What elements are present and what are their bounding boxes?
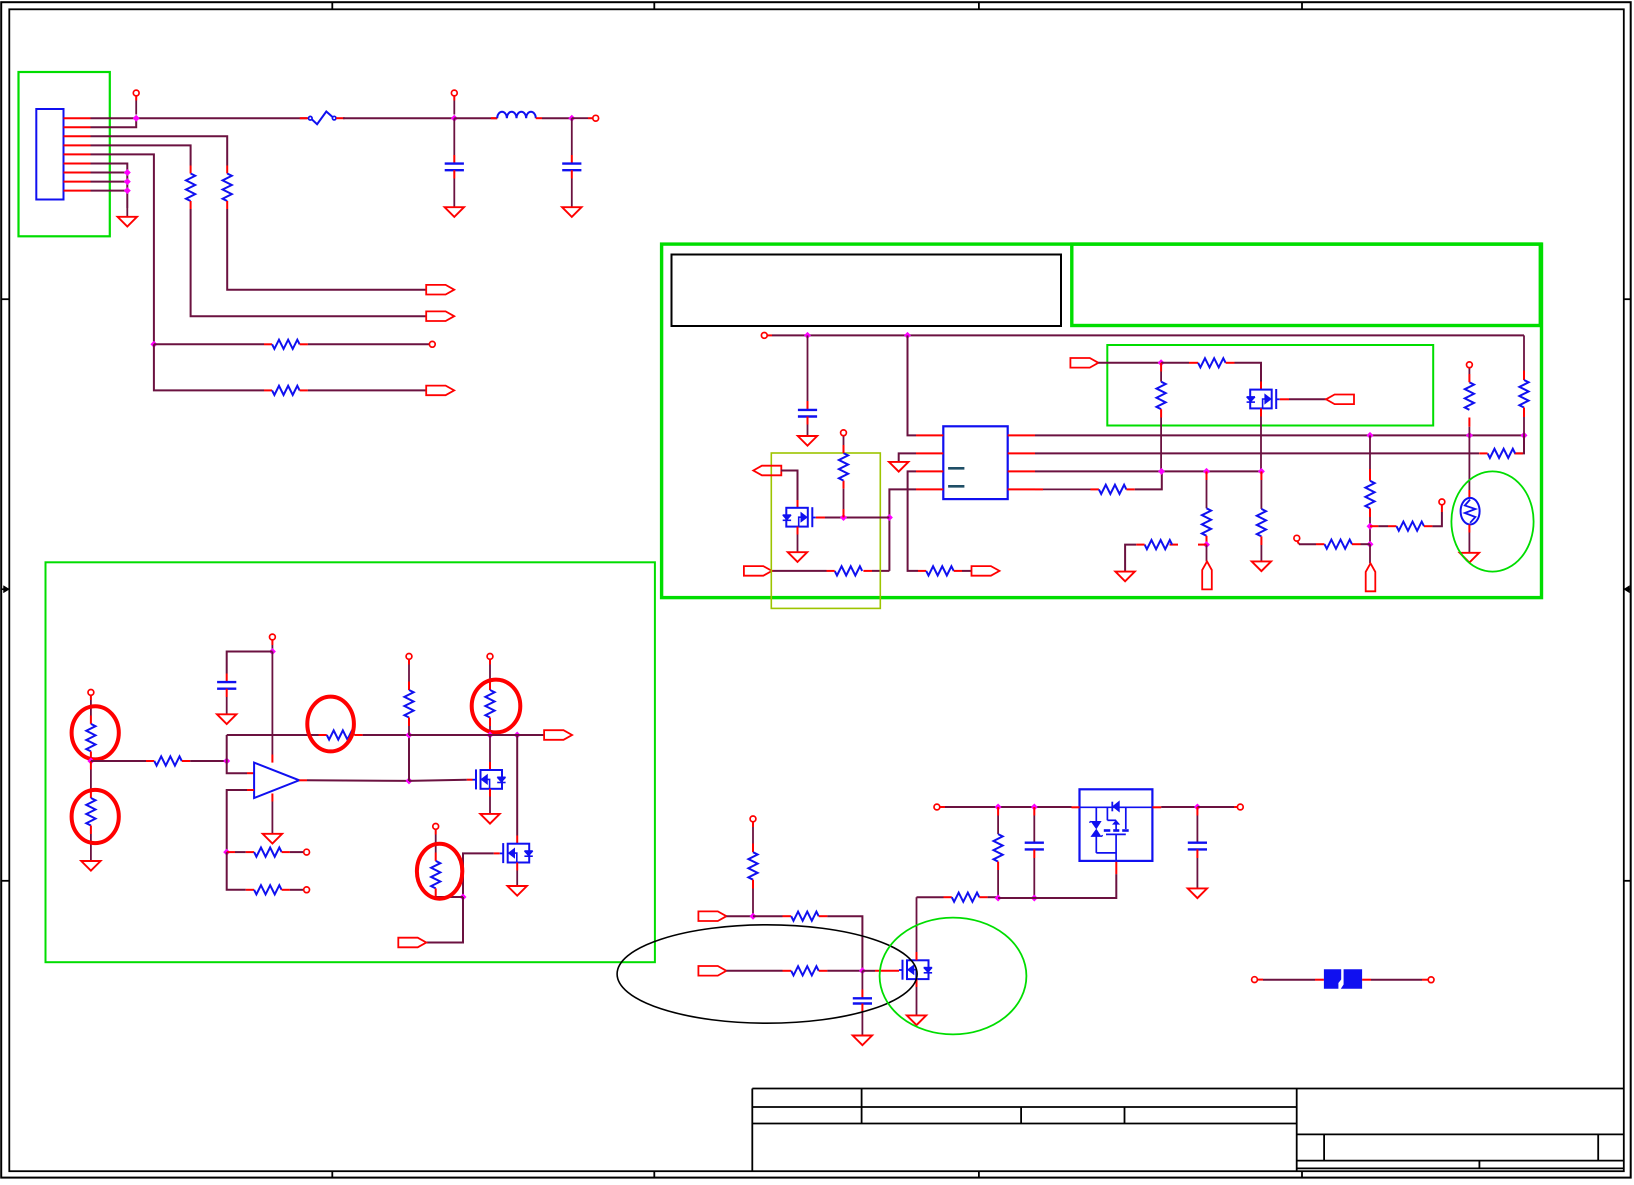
junction ls e bbox=[1194, 804, 1201, 811]
junction ls a bbox=[995, 804, 1002, 811]
ground C2 bbox=[562, 207, 581, 217]
node2 pin circle bbox=[451, 90, 457, 114]
wire out pin bbox=[1197, 804, 1243, 810]
ground R12 bbox=[1115, 572, 1134, 582]
capacitor C6 bbox=[1025, 807, 1044, 898]
junction R6 R7 bbox=[1158, 359, 1165, 366]
R22 series input bbox=[91, 756, 227, 765]
junction node2 bbox=[451, 115, 458, 122]
Q4 feed bbox=[516, 735, 518, 844]
red ellipse 1 bbox=[72, 706, 119, 759]
resistor R16 bbox=[1294, 535, 1370, 549]
Q5 gate wire bbox=[862, 970, 899, 972]
junction in1 bbox=[750, 913, 757, 920]
Q3 drain bbox=[489, 735, 491, 770]
resistor R18 bbox=[1479, 449, 1523, 458]
wire3 bus bbox=[1035, 470, 1261, 472]
junction opamp in bbox=[223, 758, 230, 765]
junction pull1 bbox=[487, 732, 494, 739]
capacitor C7 bbox=[1188, 807, 1207, 898]
load switch U3 bbox=[1072, 789, 1162, 861]
wire rail corner right bbox=[1519, 335, 1528, 435]
out row wire bbox=[409, 734, 544, 736]
capacitor C3 bbox=[798, 335, 817, 436]
R34 vertical bbox=[994, 807, 1003, 898]
capacitor C4 bbox=[217, 674, 236, 725]
R23 fb1 bbox=[227, 848, 310, 857]
lamp DS1 bbox=[1460, 435, 1480, 562]
junction div mid bbox=[1203, 541, 1210, 548]
port drain left bbox=[753, 466, 781, 476]
feedback row wire bbox=[227, 730, 409, 739]
Q2 gate port bbox=[1280, 395, 1354, 405]
R32 series bbox=[726, 966, 862, 975]
IC U1 pin marks bbox=[948, 468, 964, 486]
wire R1 to port1 bbox=[227, 209, 426, 290]
U3 bottom pin bbox=[998, 862, 1116, 898]
junction Q1 gate R5 bbox=[840, 514, 847, 521]
wire R3 to pin circle bbox=[308, 341, 435, 347]
opamp input vert bbox=[227, 735, 247, 773]
port IN2 bbox=[698, 966, 726, 976]
Q2 source down bbox=[1260, 408, 1262, 471]
junction ls b bbox=[1031, 804, 1038, 811]
capacitor C2 bbox=[562, 118, 581, 207]
red ellipse 5 bbox=[417, 844, 462, 899]
wire node2 to L1 bbox=[454, 117, 497, 119]
R14 divider bbox=[1365, 435, 1374, 544]
junction pin8 bbox=[124, 178, 131, 185]
junction rail U1 bbox=[904, 332, 911, 339]
note black box bbox=[672, 255, 1062, 327]
wire U3 out bbox=[1161, 806, 1197, 808]
transistor Q1 bbox=[783, 507, 816, 527]
IC U1 pins bbox=[916, 435, 1035, 489]
top rail wire bbox=[767, 334, 1524, 336]
junction rail cap bbox=[804, 332, 811, 339]
wire rail to U1 pin1 bbox=[908, 335, 917, 435]
port CTRL2 bbox=[398, 938, 426, 948]
wire port1 node bbox=[726, 915, 753, 917]
opamp gnd bbox=[263, 794, 282, 844]
port IN1 bbox=[698, 911, 726, 921]
wire U1 pin4 down bbox=[889, 489, 916, 571]
inductor L1 bbox=[491, 112, 542, 118]
junction ls d bbox=[1031, 895, 1038, 902]
port OUT1 bbox=[544, 730, 572, 740]
capacitor C5 bbox=[853, 971, 872, 1045]
junction Q4 gate bbox=[460, 894, 467, 901]
transistor Q4 bbox=[500, 843, 533, 863]
resistor R2 bbox=[186, 166, 195, 210]
port flag mid bbox=[1202, 545, 1212, 590]
resistor R9 bbox=[772, 566, 890, 575]
node3 output pin bbox=[572, 115, 599, 121]
wire pin5 down2 bbox=[154, 344, 264, 390]
opamp in+ stub bbox=[247, 772, 254, 774]
sub highlight box left bbox=[771, 453, 880, 608]
junction pin9 bbox=[124, 187, 131, 194]
R13 to ground bbox=[1252, 471, 1271, 571]
title block bbox=[752, 1089, 1624, 1172]
R26 pullup2 bbox=[485, 654, 494, 736]
junction gate5 bbox=[859, 967, 866, 974]
junction w3 c bbox=[1258, 468, 1265, 475]
R24 fb2 bbox=[227, 852, 310, 894]
junction gate node bbox=[886, 514, 893, 521]
wire port to Q1 drain bbox=[781, 471, 798, 508]
ground C3 bbox=[798, 436, 817, 446]
pin4 wire to R2 bbox=[91, 145, 191, 165]
junction Rdiv left bbox=[87, 758, 94, 765]
opamp highlight box bbox=[46, 562, 655, 962]
junction w1 c bbox=[1521, 432, 1528, 439]
top rail pin circle bbox=[761, 333, 767, 339]
vcc to opamp bbox=[271, 652, 273, 763]
pin2 jog wire bbox=[91, 118, 137, 127]
resistor R10 bbox=[918, 566, 962, 575]
port SIG3 bbox=[426, 386, 454, 396]
power rail node bbox=[270, 634, 276, 651]
junction pin7 bbox=[124, 169, 131, 176]
R31 series bbox=[753, 912, 862, 971]
resistor R12 left bbox=[1125, 540, 1206, 572]
Q4 ground bbox=[508, 863, 527, 896]
capacitor C1 bbox=[445, 118, 464, 207]
opamp in- wire bbox=[227, 790, 254, 852]
junction pull2 bbox=[514, 732, 521, 739]
transistor Q3 bbox=[473, 769, 506, 789]
pins6-9 bus bbox=[91, 164, 128, 209]
port flag right bbox=[1366, 544, 1376, 591]
resistor R7 horizontal bbox=[1161, 358, 1261, 389]
wire R4 to port3 bbox=[308, 389, 426, 391]
junction div2 a bbox=[1367, 523, 1374, 530]
R33 drain bbox=[952, 893, 998, 902]
junction fb div bbox=[223, 849, 230, 856]
ground C1 bbox=[445, 207, 464, 217]
transistor Q2 bbox=[1247, 389, 1280, 409]
Q1 gate wire bbox=[816, 517, 890, 519]
port SIG1 bbox=[426, 285, 454, 295]
wire port to R6 bbox=[1098, 362, 1161, 364]
resistor R8 bbox=[1043, 471, 1162, 494]
red ellipse 3 bbox=[307, 697, 354, 752]
green ellipse lamp bbox=[1451, 471, 1533, 571]
junction w3 a bbox=[1158, 468, 1165, 475]
resistor R6 vertical bbox=[1157, 363, 1166, 472]
wire R2 to port2 bbox=[191, 209, 426, 316]
green circle note bbox=[880, 918, 1027, 1035]
Q3 ground bbox=[480, 789, 499, 824]
junction ls c bbox=[995, 895, 1002, 902]
pin3 wire to R1 bbox=[91, 136, 228, 165]
wire w2 corner bbox=[1514, 435, 1524, 453]
red ellipse 4 bbox=[472, 680, 521, 733]
resistor R15 bbox=[1370, 499, 1445, 531]
vin pin circle bbox=[934, 804, 1072, 810]
junction w3 b bbox=[1203, 468, 1210, 475]
inner highlight box EN circuit bbox=[1107, 345, 1433, 426]
fb vertical bbox=[408, 735, 410, 781]
wire4 bus bbox=[1035, 488, 1043, 490]
fuse F1 bbox=[300, 112, 345, 125]
fuse F2 bbox=[1252, 969, 1434, 989]
junction div2 b bbox=[1367, 541, 1374, 548]
junction out bbox=[406, 777, 413, 784]
black ellipse note bbox=[617, 925, 917, 1023]
junction w1 a bbox=[1367, 432, 1374, 439]
R30 pullup bbox=[748, 816, 757, 916]
opamp out wire bbox=[299, 779, 409, 782]
R20 input top bbox=[86, 690, 95, 762]
resistor R4 bbox=[264, 386, 308, 395]
wire U1 pin3 down bbox=[908, 471, 918, 571]
Q5 ground bbox=[907, 979, 926, 1025]
connector J1 bbox=[36, 109, 63, 200]
vcc to cap wire bbox=[227, 652, 273, 674]
R17 pullup bbox=[1465, 362, 1474, 436]
transistor Q5 bbox=[899, 960, 932, 980]
junction node3 bbox=[568, 115, 575, 122]
IC U1 bbox=[943, 426, 1007, 499]
junction vcc bbox=[269, 648, 276, 655]
wire gate to port bbox=[426, 897, 463, 943]
left center arrow bbox=[1, 586, 9, 593]
Q3 gate wire bbox=[409, 780, 473, 781]
R21 lower bbox=[81, 761, 100, 871]
port EN in bbox=[1070, 358, 1098, 368]
Q1 source to ground bbox=[788, 527, 807, 562]
resistor R1 bbox=[223, 166, 232, 210]
right center arrow bbox=[1624, 586, 1631, 593]
resistor R5 bbox=[839, 430, 848, 518]
port DET out bbox=[972, 566, 1000, 576]
connector J1 pins bbox=[64, 118, 91, 190]
connector highlight box bbox=[19, 72, 110, 236]
wire R10 to port bbox=[962, 570, 971, 572]
pin5 wire down bbox=[91, 154, 154, 344]
junction pin5 node bbox=[150, 341, 157, 348]
junction fb top bbox=[406, 732, 413, 739]
wire2 bus bbox=[1035, 452, 1479, 454]
wire fuse to node2 bbox=[343, 117, 454, 119]
R27 gate pulldown bbox=[431, 824, 463, 898]
junction w1 b bbox=[1466, 432, 1473, 439]
ground U1 pin2 bbox=[889, 453, 916, 471]
Q4 gate wire bbox=[463, 853, 500, 897]
R11 divider mid bbox=[1202, 471, 1211, 544]
pin1 net wire bbox=[91, 117, 308, 119]
port CTRL in bbox=[744, 566, 772, 576]
sub highlight box top-right bbox=[1072, 244, 1541, 325]
red ellipse 2 bbox=[72, 790, 119, 843]
Q5 drain up bbox=[917, 897, 952, 960]
wire1 bus bbox=[1035, 434, 1524, 436]
main highlight box bbox=[662, 244, 1542, 597]
resistor R3 bbox=[154, 340, 308, 349]
ground connector bbox=[118, 208, 137, 227]
opamp U2 bbox=[254, 763, 299, 798]
junction pin1 bbox=[133, 115, 140, 122]
node VIN pin circle bbox=[133, 90, 139, 114]
port SIG2 bbox=[426, 311, 454, 321]
R25 pullup1 bbox=[404, 654, 413, 736]
wire L1 to node3 bbox=[542, 117, 572, 119]
